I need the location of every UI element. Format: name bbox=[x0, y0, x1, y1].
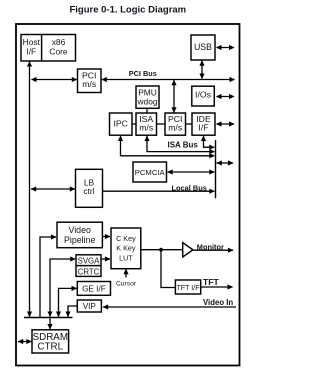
block Video Pipeline bbox=[57, 222, 102, 248]
wire PCI bus to PCI m/s (isa row) bbox=[171, 80, 176, 113]
wire host rail to PCI m/s bbox=[31, 77, 77, 82]
svg-text:PCMCIA: PCMCIA bbox=[135, 168, 166, 177]
svg-text:Pipeline: Pipeline bbox=[64, 235, 95, 245]
wire USB to right edge bbox=[216, 45, 235, 50]
wire DAC to monitor out bbox=[192, 248, 234, 253]
wire PCI Bus bbox=[101, 77, 235, 82]
block SDRAM CTRL bbox=[32, 330, 69, 353]
wire SVGA to C Key bbox=[102, 256, 111, 261]
wire host rail to LB ctrl bbox=[31, 186, 76, 191]
svg-text:LUT: LUT bbox=[119, 253, 133, 262]
wire host rail vertical bbox=[27, 61, 32, 317]
svg-text:CRTC: CRTC bbox=[78, 267, 100, 276]
svg-text:VIP: VIP bbox=[83, 302, 97, 311]
svg-text:SVGA: SVGA bbox=[78, 257, 100, 266]
wire sdram bus horizontal bbox=[24, 317, 73, 319]
junction dot monitor/TFT bbox=[159, 248, 163, 252]
svg-text:ctrl: ctrl bbox=[83, 186, 94, 196]
wire Video In to VIP bbox=[103, 304, 236, 309]
node right collector bus bbox=[215, 140, 217, 198]
wire SDRAM CTRL to left edge bbox=[18, 339, 32, 344]
svg-text:Monitor: Monitor bbox=[197, 242, 224, 251]
block C Key K Key LUT bbox=[111, 228, 141, 269]
wire Video Pipeline to C Key bbox=[103, 234, 110, 239]
wire collector bus to right edge bbox=[216, 160, 233, 165]
svg-text:PCI Bus: PCI Bus bbox=[129, 69, 157, 78]
wire IPC to ISA m/s connector bbox=[132, 123, 136, 125]
wire sdram riser to SVGA bbox=[47, 256, 75, 317]
wire IDE stem to ISA bus node bbox=[201, 136, 215, 150]
wire VIP to sdram bus bbox=[65, 306, 77, 317]
wire sdram riser to Video Pipeline bbox=[40, 234, 57, 317]
svg-text:CTRL: CTRL bbox=[38, 342, 64, 353]
svg-text:C Key: C Key bbox=[116, 234, 136, 243]
block IPC bbox=[110, 113, 133, 135]
block ISA m/s bbox=[136, 113, 157, 135]
wire IPC stem to bus node bbox=[118, 136, 215, 159]
block LB ctrl bbox=[76, 169, 103, 207]
wire I/Os to right edge bbox=[216, 94, 235, 99]
wire PCI m/s to IDE I/F connector bbox=[186, 123, 193, 125]
block I/Os bbox=[192, 86, 215, 106]
wire sdram riser to GE I/F bbox=[56, 286, 77, 317]
block GE I/F bbox=[77, 282, 110, 296]
monitor DAC buffer triangle bbox=[183, 243, 193, 257]
block PCI m/s (isa row) bbox=[165, 113, 186, 135]
block PCI m/s (host) bbox=[78, 69, 102, 93]
svg-text:Video: Video bbox=[69, 225, 91, 235]
svg-text:Video In: Video In bbox=[203, 298, 233, 307]
svg-text:Figure 0-1. Logic Diagram: Figure 0-1. Logic Diagram bbox=[69, 5, 186, 16]
chip outer boundary bbox=[16, 24, 240, 366]
svg-text:ISA Bus: ISA Bus bbox=[168, 140, 199, 149]
wire sdram bus to SDRAM CTRL bbox=[47, 318, 52, 330]
wire USB to PCI bus bbox=[199, 60, 204, 79]
svg-text:m/s: m/s bbox=[139, 122, 154, 132]
svg-text:USB: USB bbox=[194, 42, 212, 52]
svg-text:wdog: wdog bbox=[136, 97, 157, 107]
block TFT I/F bbox=[175, 280, 200, 294]
wire ISA m/s to PCI m/s connector bbox=[157, 123, 166, 125]
block PMU wdog bbox=[136, 86, 159, 108]
wire Local Bus bbox=[103, 189, 215, 194]
svg-text:m/s: m/s bbox=[168, 122, 183, 132]
svg-text:Local Bus: Local Bus bbox=[172, 184, 207, 193]
block Host I/F + x86 Core bbox=[21, 35, 76, 62]
block IDE I/F bbox=[192, 113, 215, 135]
wire junction down to TFT I/F bbox=[161, 250, 175, 288]
block PCMCIA bbox=[133, 162, 167, 182]
wire ISA m/s stem ISA Bus line bbox=[144, 136, 214, 155]
svg-text:I/F: I/F bbox=[26, 46, 36, 56]
svg-text:IPC: IPC bbox=[113, 118, 127, 128]
svg-text:K Key: K Key bbox=[116, 244, 136, 253]
svg-text:Cursor: Cursor bbox=[116, 281, 137, 288]
svg-text:GE I/F: GE I/F bbox=[82, 285, 106, 294]
svg-text:Core: Core bbox=[49, 46, 67, 56]
svg-text:I/Os: I/Os bbox=[195, 89, 212, 99]
block VIP bbox=[77, 300, 101, 312]
wire IDE I/F to right edge bbox=[216, 121, 235, 126]
svg-text:TFT I/F: TFT I/F bbox=[176, 284, 200, 292]
block USB bbox=[191, 35, 215, 60]
wire cursor into C Key bbox=[123, 269, 128, 278]
wire PMU to ISA m/s stub bbox=[146, 108, 148, 113]
svg-text:x86: x86 bbox=[52, 37, 66, 47]
svg-text:TFT: TFT bbox=[203, 277, 219, 287]
svg-text:m/s: m/s bbox=[82, 79, 97, 89]
wire TFT I/F to TFT out bbox=[201, 284, 233, 289]
svg-text:Host: Host bbox=[23, 37, 41, 47]
wire C Key to DAC bbox=[141, 249, 182, 251]
wire PCMCIA to collector bus bbox=[167, 169, 215, 174]
block SVGA CRTC bbox=[76, 255, 101, 277]
svg-text:I/F: I/F bbox=[198, 122, 208, 132]
